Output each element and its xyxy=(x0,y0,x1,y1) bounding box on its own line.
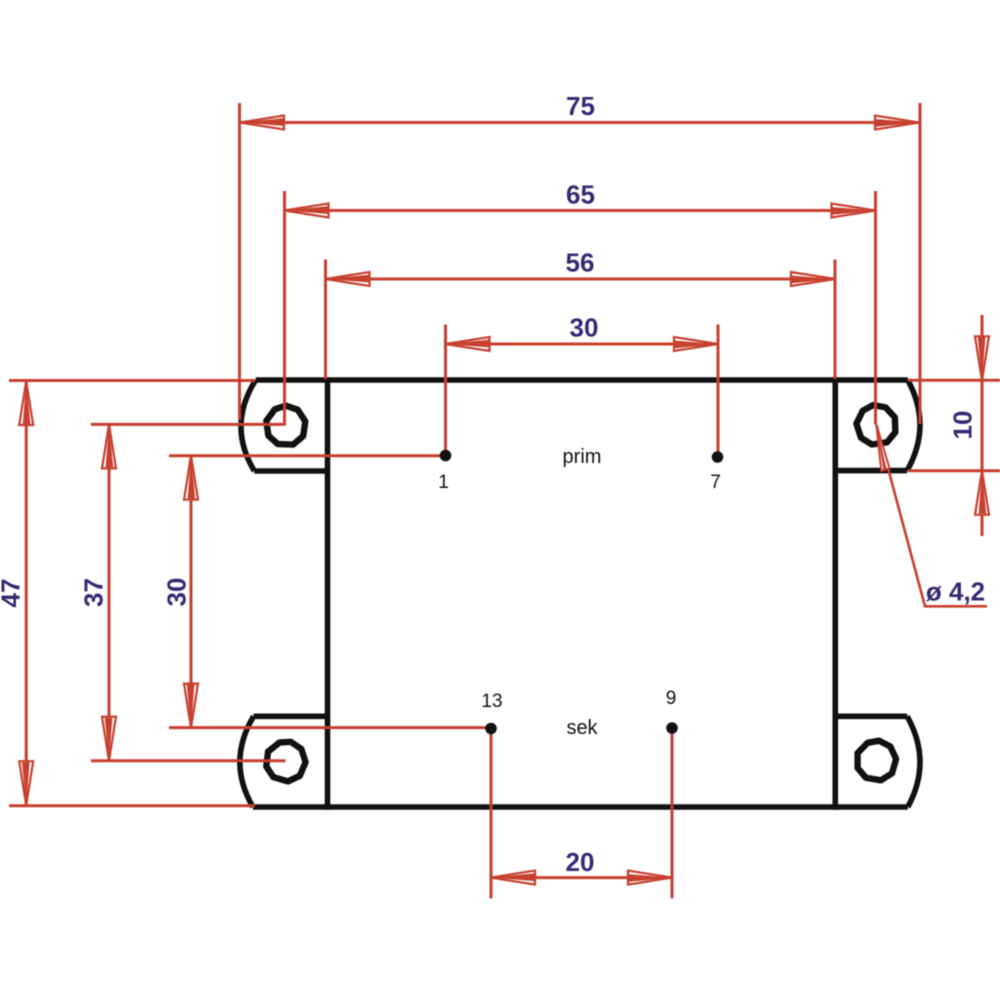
mounting hole bottom-left xyxy=(262,737,310,785)
arrowhead 10 bottom xyxy=(975,471,989,515)
dimension line 47 xyxy=(25,381,28,805)
body outline: bottom edge xyxy=(253,804,908,810)
arrowhead 30 left bottom xyxy=(184,684,198,728)
arrowhead 65 right xyxy=(832,204,876,218)
wire: extension line 37 top xyxy=(91,423,286,426)
tab top-right outer arc xyxy=(907,380,920,471)
pin 7 pad xyxy=(712,451,724,463)
svg-text:1: 1 xyxy=(438,472,449,493)
arrowhead 75 right xyxy=(875,116,919,130)
arrowhead 56 left xyxy=(326,272,370,286)
svg-text:30: 30 xyxy=(162,578,192,607)
svg-text:9: 9 xyxy=(666,688,677,709)
arrowhead 47 top xyxy=(19,381,33,425)
svg-text:20: 20 xyxy=(566,847,595,877)
wire: extension line 10 top xyxy=(908,379,1000,382)
dimension line 75 xyxy=(240,121,919,124)
tab top-left outer arc xyxy=(241,380,256,471)
tab bottom-left outer arc xyxy=(240,716,254,807)
tab bottom-left top edge xyxy=(254,713,328,719)
wire: extension line 10 bottom xyxy=(908,469,1000,472)
svg-text:47: 47 xyxy=(0,579,26,608)
body outline: top edge xyxy=(256,377,908,383)
svg-text:75: 75 xyxy=(566,91,595,121)
arrowhead 30 top right xyxy=(674,337,718,351)
arrowhead 37 bottom xyxy=(102,717,116,761)
tab top-right bottom edge xyxy=(838,468,907,474)
dimension line 10 xyxy=(981,315,984,536)
wire: extension line 56 left xyxy=(324,260,327,380)
arrowhead 75 left xyxy=(240,116,284,130)
wire: extension line 75 right xyxy=(919,103,922,424)
svg-text:30: 30 xyxy=(570,313,599,343)
dimension line 30 left xyxy=(190,456,193,728)
dimension line 65 xyxy=(285,209,876,212)
wire: extension line 47 top xyxy=(9,379,255,382)
wire: extension line 65 left xyxy=(283,191,286,425)
arrowhead 37 top xyxy=(102,424,116,468)
arrowhead 30 top left xyxy=(446,337,490,351)
pin 13 pad xyxy=(485,723,497,735)
arrowhead 10 top xyxy=(975,336,989,380)
wire: extension line 30 top left xyxy=(444,325,447,456)
dimension line 37 xyxy=(108,425,111,761)
svg-text:prim: prim xyxy=(563,446,602,468)
svg-text:37: 37 xyxy=(79,578,109,607)
svg-text:7: 7 xyxy=(710,472,721,493)
body outline: left edge xyxy=(325,377,331,810)
leader line diameter 4,2 xyxy=(876,424,987,606)
arrowhead 56 right xyxy=(791,272,835,286)
wire: extension line 20 left xyxy=(490,729,493,898)
arrowhead 20 left xyxy=(491,871,535,885)
wire: extension line 75 left xyxy=(238,103,241,420)
tab top-left bottom edge xyxy=(254,468,327,474)
svg-text:13: 13 xyxy=(481,691,502,712)
dimension line 20 xyxy=(491,876,672,879)
mounting hole bottom-right xyxy=(854,738,898,782)
wire: extension line 30 top right xyxy=(717,325,720,457)
arrowhead 65 left xyxy=(285,204,329,218)
svg-text:10: 10 xyxy=(948,411,978,440)
tab bottom-right outer arc xyxy=(907,716,920,807)
wire: extension line 37 bottom xyxy=(91,759,286,762)
wire: extension line 30 left bottom xyxy=(169,726,491,729)
body outline: right edge xyxy=(832,377,838,810)
dimension line 56 xyxy=(326,278,836,281)
wire: extension line 65 right xyxy=(874,191,877,424)
svg-text:65: 65 xyxy=(566,179,595,209)
dimension line 30 top xyxy=(446,343,719,346)
mounting hole top-right xyxy=(854,402,899,447)
svg-text:56: 56 xyxy=(566,248,595,278)
arrowhead 47 bottom xyxy=(19,761,33,805)
svg-text:ø 4,2: ø 4,2 xyxy=(926,577,985,607)
arrowhead 30 left top xyxy=(184,456,198,500)
tab bottom-right top edge xyxy=(838,713,907,719)
pin 1 pad xyxy=(440,450,452,462)
wire: extension line 56 right xyxy=(834,260,837,380)
wire: extension line 20 right xyxy=(671,728,674,898)
arrowhead 20 right xyxy=(628,871,672,885)
svg-text:sek: sek xyxy=(566,717,598,739)
leader arrowhead xyxy=(876,424,889,470)
wire: extension line 30 left top xyxy=(169,454,445,457)
pin 9 pad xyxy=(666,722,678,734)
wire: extension line 47 bottom xyxy=(9,804,255,807)
mounting hole top-left xyxy=(266,406,305,445)
